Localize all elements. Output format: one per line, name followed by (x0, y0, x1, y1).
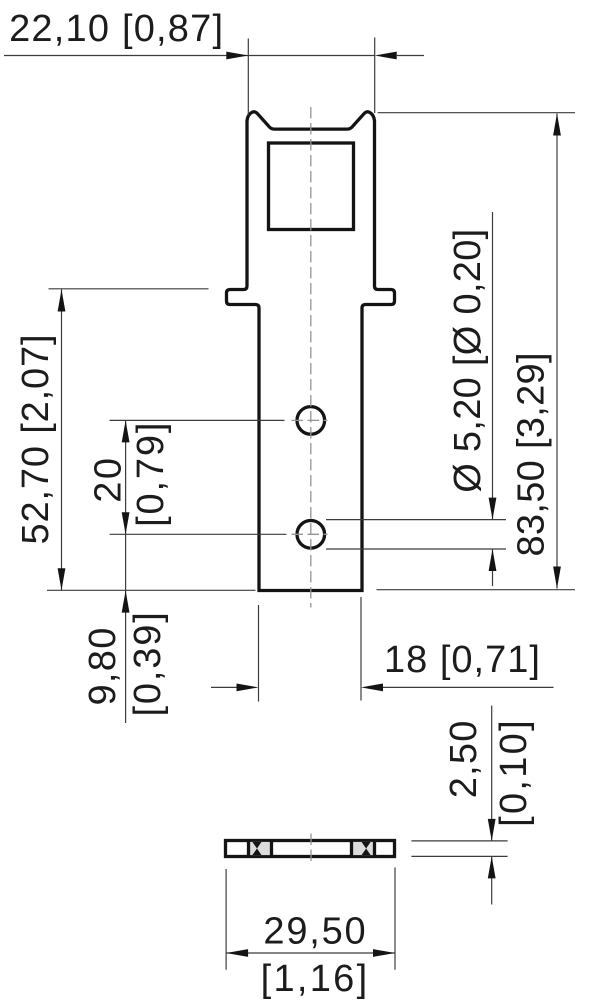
dim 18 extension right (360, 597, 362, 701)
dim 9,80 arrow (122, 591, 130, 613)
hole H2 horizontal center line (292, 533, 328, 535)
dim 22,10 line (4, 55, 375, 57)
dim diameter 5,20 line upper (492, 212, 494, 520)
dim 2,50 extension bottom (411, 855, 507, 857)
strip divider 2 (270, 841, 273, 857)
dim 20 and 9,80 shared line (125, 420, 127, 723)
svg-text:[0,10]: [0,10] (493, 718, 535, 827)
svg-text:52,70 [2,07]: 52,70 [2,07] (15, 334, 57, 545)
dim 29,50 extension left (225, 869, 227, 970)
dim 83,50 arrow top (553, 114, 561, 136)
dim 29,50 arrow right (373, 949, 395, 957)
dim diameter 5,20 tangent bottom (326, 548, 506, 550)
dim 2,50 arrow upper (488, 819, 496, 841)
hole H1 (297, 407, 325, 435)
bottom extension line left (47, 589, 256, 591)
svg-text:[0,39]: [0,39] (127, 610, 169, 716)
dim 20 extension lower (110, 533, 287, 535)
dim 83,50 extension bottom (377, 589, 576, 591)
dim 20 arrow bottom (122, 512, 130, 534)
square hole (269, 143, 354, 230)
dim diameter 5,20 arrow upper (489, 498, 497, 520)
svg-text:20: 20 (87, 455, 129, 502)
dim 18 line left (211, 686, 237, 688)
svg-text:Ø 5,20 [Ø 0,20]: Ø 5,20 [Ø 0,20] (447, 228, 489, 492)
svg-text:[1,16]: [1,16] (261, 958, 370, 1000)
strip divider 3 (350, 841, 353, 857)
dim 18 extension left (258, 605, 260, 702)
dim 52,70 line (61, 290, 63, 591)
dim 20 arrow top (122, 420, 130, 442)
dim 29,50 extension right (394, 868, 396, 970)
crimp cell right fill (353, 842, 373, 855)
vertical center line (310, 107, 312, 608)
dim 22,10 arrow left (226, 52, 248, 60)
svg-text:9,80: 9,80 (82, 626, 124, 705)
dim 2,50 line lower (491, 856, 493, 904)
dim 2,50 arrow lower (488, 856, 496, 878)
dim diameter 5,20 arrow lower (489, 549, 497, 571)
dim 18 arrow right (361, 684, 383, 692)
dim 22,10 arrow right (375, 52, 397, 60)
dim 52,70 arrow top (58, 290, 66, 312)
svg-text:22,10 [0,87]: 22,10 [0,87] (9, 8, 224, 50)
crimp hourglass left (252, 842, 261, 855)
dim 20 extension upper (110, 419, 285, 421)
dim 2,50 extension top (411, 840, 507, 842)
dim 83,50 extension top (378, 112, 575, 114)
svg-text:83,50 [3,29]: 83,50 [3,29] (511, 352, 553, 556)
crimp hourglass right (362, 842, 371, 855)
dim 83,50 arrow bottom (553, 567, 561, 589)
strip center line (310, 834, 312, 866)
front view outline (227, 112, 395, 591)
dim diameter 5,20 line lower (492, 549, 494, 586)
dim 18 arrow left (237, 684, 259, 692)
dim 29,50 arrow left (226, 949, 248, 957)
dim 52,70 arrow bottom (58, 568, 66, 590)
svg-text:29,50: 29,50 (263, 911, 367, 953)
strip divider 4 (373, 841, 376, 857)
bottom view strip outline (226, 841, 395, 857)
svg-text:[0,79]: [0,79] (130, 421, 172, 527)
svg-text:2,50: 2,50 (443, 719, 485, 798)
dim 52,70 extension top (49, 288, 209, 290)
hole H2 (297, 521, 325, 549)
svg-text:18 [0,71]: 18 [0,71] (384, 639, 541, 681)
dim 22,10 extension right (374, 38, 376, 114)
dim 29,50 line (226, 952, 395, 954)
dim 22,10 extension left (247, 39, 249, 116)
hole H1 horizontal center line (292, 419, 328, 421)
dim 18 line right (383, 686, 554, 688)
strip divider 1 (247, 841, 250, 857)
dim 83,50 line (556, 114, 558, 589)
dim diameter 5,20 tangent top (326, 519, 506, 521)
crimp cell left fill (250, 842, 270, 855)
dim 2,50 line upper (491, 706, 493, 841)
